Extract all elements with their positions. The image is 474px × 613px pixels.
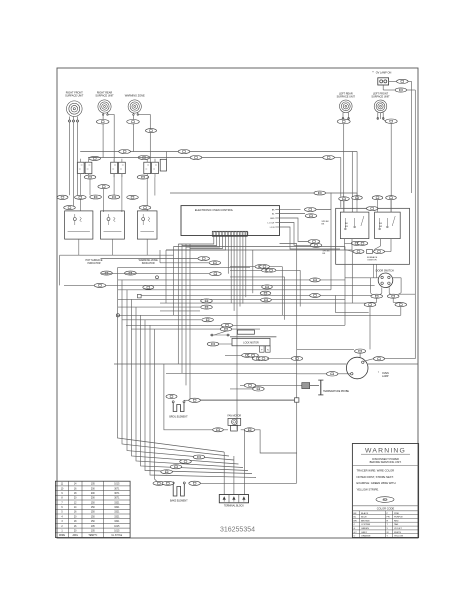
svg-text:SURFACE UNIT: SURFACE UNIT — [65, 95, 84, 98]
svg-text:BAKE ELEMENT: BAKE ELEMENT — [170, 500, 188, 503]
svg-text:GREY: GREY — [361, 532, 368, 534]
svg-text:SURFACE UNIT: SURFACE UNIT — [337, 96, 356, 99]
svg-text:3321: 3321 — [114, 512, 120, 514]
svg-text:GREEN: GREEN — [361, 528, 369, 530]
svg-text:NOTED FIRST, STRIPE NEXT.: NOTED FIRST, STRIPE NEXT. — [357, 475, 394, 479]
svg-text:INDICATOR: INDICATOR — [142, 262, 155, 265]
svg-text:G: G — [354, 528, 356, 530]
svg-text:L1 OUT: L1 OUT — [267, 223, 275, 225]
svg-text:GND: GND — [270, 218, 275, 220]
svg-text:WHITE: WHITE — [394, 532, 402, 534]
svg-text:RED: RED — [394, 520, 399, 522]
svg-text:ELECTRONIC OVEN CONTROL: ELECTRONIC OVEN CONTROL — [195, 208, 234, 212]
svg-text:3321: 3321 — [114, 521, 120, 523]
svg-text:TAN: TAN — [394, 523, 399, 526]
svg-text:AWG: AWG — [72, 534, 78, 537]
svg-text:COPPER: COPPER — [361, 524, 371, 526]
svg-text:3071: 3071 — [114, 488, 120, 490]
svg-text:3071: 3071 — [114, 493, 120, 495]
svg-text:PR: PR — [387, 517, 390, 519]
svg-text:ORANGE: ORANGE — [361, 535, 371, 538]
svg-text:GY: GY — [354, 532, 358, 534]
svg-text:WARMING ZONE: WARMING ZONE — [125, 95, 145, 98]
svg-text:WIRE: WIRE — [59, 535, 65, 537]
svg-text:3321: 3321 — [114, 507, 120, 509]
svg-text:VIOLET: VIOLET — [394, 528, 402, 530]
svg-text:PURPLE: PURPLE — [394, 517, 403, 519]
svg-text:FAN MOTOR: FAN MOTOR — [227, 414, 241, 417]
svg-text:UL STYLE: UL STYLE — [111, 535, 122, 537]
svg-text:3321: 3321 — [114, 502, 120, 504]
svg-text:3321: 3321 — [114, 516, 120, 518]
svg-text:316255354: 316255354 — [220, 527, 255, 534]
svg-text:SW: SW — [345, 226, 348, 228]
svg-text:EXAMPLE: GREEN WIRE WITH: EXAMPLE: GREEN WIRE WITH — [357, 481, 396, 485]
svg-text:TEMPERATURE PROBE: TEMPERATURE PROBE — [323, 390, 349, 393]
svg-text:BR: BR — [354, 520, 357, 522]
svg-text:INDICATOR: INDICATOR — [88, 262, 101, 265]
svg-text:BROIL ELEMENT: BROIL ELEMENT — [169, 417, 188, 419]
svg-text:SURFACE: SURFACE — [367, 256, 378, 259]
svg-text:O: O — [354, 536, 356, 538]
svg-text:TERMINAL BLOCK: TERMINAL BLOCK — [224, 505, 244, 508]
svg-text:BROWN: BROWN — [361, 520, 370, 522]
svg-text:DOOR SWITCH: DOOR SWITCH — [376, 269, 394, 272]
svg-text:SW: SW — [379, 226, 382, 228]
svg-text:PINK: PINK — [394, 513, 400, 515]
svg-text:GN-Y: GN-Y — [382, 500, 388, 502]
svg-text:COLOR CODE: COLOR CODE — [377, 506, 395, 510]
svg-text:OV LAMP ON: OV LAMP ON — [376, 72, 392, 75]
svg-text:3071: 3071 — [114, 498, 120, 500]
svg-text:BLACK: BLACK — [361, 512, 369, 515]
svg-text:TRACER WIRE: WIRE COLOR: TRACER WIRE: WIRE COLOR — [357, 469, 395, 473]
svg-text:SURFACE UNIT: SURFACE UNIT — [95, 95, 114, 98]
svg-text:YELLOW STRIPE.: YELLOW STRIPE. — [357, 487, 380, 491]
svg-text:1015: 1015 — [114, 531, 120, 533]
svg-text:BEFORE SERVICING UNIT.: BEFORE SERVICING UNIT. — [370, 461, 402, 464]
svg-text:1015: 1015 — [114, 484, 120, 486]
svg-text:BLUE: BLUE — [361, 517, 367, 519]
svg-text:LOCK MOTOR: LOCK MOTOR — [243, 343, 259, 345]
svg-text:WARNING: WARNING — [365, 448, 406, 455]
svg-text:SURFACE UNIT: SURFACE UNIT — [371, 96, 390, 99]
svg-text:IGNITOR: IGNITOR — [367, 259, 376, 261]
svg-text:L1 IN: L1 IN — [270, 227, 275, 229]
svg-text:YELLOW: YELLOW — [394, 536, 404, 538]
svg-text:1015: 1015 — [114, 526, 120, 528]
svg-text:TEMP°C: TEMP°C — [88, 535, 97, 537]
svg-text:LAMP: LAMP — [382, 375, 389, 378]
